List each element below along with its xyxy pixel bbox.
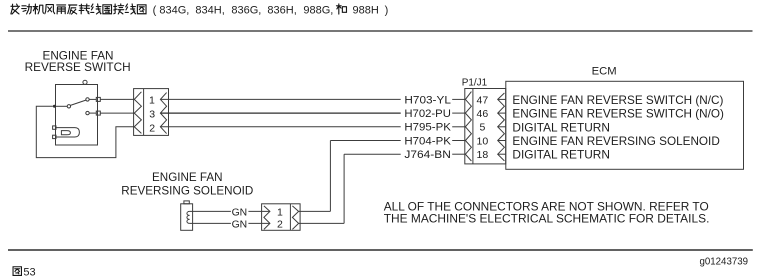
svg-text:2: 2	[149, 123, 155, 135]
svg-text:988H: 988H	[353, 4, 379, 16]
wire: GN to connector pin1	[248, 210, 270, 212]
svg-text:ECM: ECM	[592, 65, 617, 77]
wire: switch pin3 to connector	[100, 112, 134, 114]
svg-text:47: 47	[477, 94, 489, 106]
svg-text:(: (	[153, 4, 157, 16]
solenoid connector left contacts	[264, 206, 270, 230]
solenoid tab	[184, 201, 189, 204]
switch lamp outer	[56, 128, 79, 137]
engine fan reversing solenoid body	[181, 204, 193, 231]
switch terminal pad pin3	[96, 111, 100, 115]
svg-text:GN: GN	[232, 218, 248, 230]
wire H702-PU run	[160, 112, 400, 114]
solenoid coil	[187, 211, 190, 223]
svg-text:H795-PK: H795-PK	[404, 122, 451, 134]
svg-text:ENGINE FAN REVERSE SWITCH (N/C: ENGINE FAN REVERSE SWITCH (N/C)	[512, 93, 723, 107]
svg-text:REVERSE SWITCH: REVERSE SWITCH	[25, 60, 131, 74]
svg-text:2: 2	[277, 218, 283, 230]
switch lamp terminal lower	[53, 135, 56, 138]
wire: common dot to pivot	[56, 105, 67, 107]
svg-text:46: 46	[477, 108, 489, 120]
solenoid connector body	[262, 204, 301, 231]
svg-text:18: 18	[477, 149, 489, 161]
svg-text:H703-YL: H703-YL	[404, 94, 451, 106]
wire H795-PK run	[160, 126, 400, 128]
wire: GN to connector pin2	[248, 222, 270, 224]
wire riser J764-BN	[343, 154, 345, 223]
switch common terminal dot	[53, 105, 56, 108]
svg-text:ENGINE FAN: ENGINE FAN	[152, 170, 223, 184]
wire: N/O contact to terminal	[89, 112, 96, 114]
svg-text:ENGINE FAN REVERSING SOLENOID: ENGINE FAN REVERSING SOLENOID	[512, 134, 720, 148]
svg-text:g01243739: g01243739	[700, 257, 749, 268]
ECM pin contacts	[498, 93, 505, 161]
svg-text:H702-PU: H702-PU	[404, 108, 451, 120]
svg-text:1: 1	[149, 94, 155, 106]
wire: switch pin1 to connector	[100, 98, 134, 100]
switch lamp terminal upper	[53, 126, 56, 129]
bottom rule	[8, 249, 753, 251]
connector P1/J1 divider	[472, 89, 474, 164]
wire: common loop under switch to connector pin2	[36, 106, 134, 157]
title glyph 和	[336, 4, 346, 14]
svg-text:ENGINE FAN REVERSE SWITCH (N/O: ENGINE FAN REVERSE SWITCH (N/O)	[512, 107, 724, 121]
ECM pin shaft ticks	[498, 98, 506, 100]
switch lamp inner	[61, 131, 70, 135]
switch N/C contact	[86, 98, 89, 101]
wire J764-BN left segment	[344, 153, 401, 155]
ECM box	[506, 81, 744, 169]
svg-text:5: 5	[479, 122, 485, 134]
switch top bump terminal	[83, 80, 87, 84]
switch connector body	[134, 89, 169, 136]
wire: connector pin2 to riser	[299, 222, 345, 224]
switch connector right contacts	[160, 93, 166, 134]
top rule	[8, 30, 753, 32]
switch lever	[70, 100, 86, 105]
solenoid connector divider	[289, 204, 291, 231]
svg-text:836G,: 836G,	[231, 4, 261, 16]
svg-text:REVERSING SOLENOID: REVERSING SOLENOID	[121, 184, 253, 198]
wire: N/C contact to terminal	[89, 98, 96, 100]
title fake CJK glyphs 发动机风扇反转线圈接线图	[11, 4, 20, 14]
switch connector divider	[143, 89, 145, 136]
connector P1/J1 contacts	[465, 92, 471, 161]
wire: solenoid to GN (pin1)	[190, 210, 231, 212]
svg-text:GN: GN	[232, 206, 248, 218]
svg-text:DIGITAL RETURN: DIGITAL RETURN	[512, 148, 610, 162]
svg-text:836H,: 836H,	[267, 4, 296, 16]
svg-text:834H,: 834H,	[195, 4, 224, 16]
svg-text:53: 53	[23, 267, 35, 279]
switch terminal pad pin1	[96, 97, 100, 101]
figure number 图53	[13, 267, 21, 276]
wire H703-YL run	[160, 98, 400, 100]
solenoid connector right contacts	[292, 206, 298, 230]
wire riser H704-PK	[329, 141, 331, 212]
connector P1/J1 body	[465, 89, 506, 164]
svg-text:10: 10	[477, 135, 489, 147]
wire: solenoid to GN (pin2)	[190, 222, 231, 224]
svg-text:J764-BN: J764-BN	[404, 149, 451, 161]
svg-text:DIGITAL RETURN: DIGITAL RETURN	[512, 120, 610, 134]
wire: connector pin1 to riser	[299, 210, 331, 212]
svg-text:): )	[385, 4, 389, 16]
svg-text:H704-PK: H704-PK	[404, 135, 451, 147]
svg-text:THE MACHINE'S ELECTRICAL SCHEM: THE MACHINE'S ELECTRICAL SCHEMATIC FOR D…	[384, 211, 710, 225]
switch connector left contacts	[134, 92, 141, 134]
svg-text:P1/J1: P1/J1	[462, 77, 488, 89]
wire H704-PK left segment	[330, 140, 400, 142]
wire stubs to P1/J1	[452, 98, 465, 100]
svg-text:1: 1	[277, 206, 283, 218]
svg-text:3: 3	[149, 109, 155, 121]
switch N/O contact	[86, 111, 89, 114]
svg-text:988G,: 988G,	[303, 4, 333, 16]
switch pivot contact	[67, 105, 70, 108]
engine fan reverse switch body	[56, 85, 98, 146]
svg-text:834G,: 834G,	[159, 4, 189, 16]
